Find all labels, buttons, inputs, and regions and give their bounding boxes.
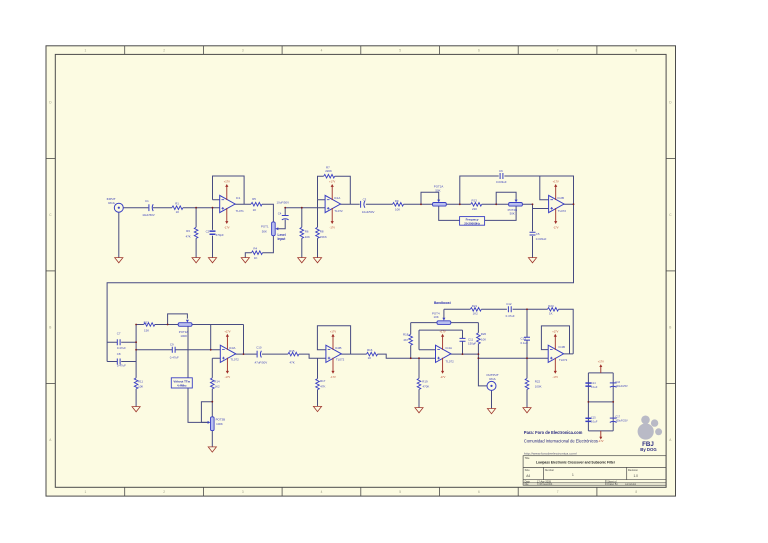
svg-text:POT3B: POT3B — [216, 418, 226, 422]
svg-text:IC3B: IC3B — [335, 346, 341, 350]
svg-text:5: 5 — [399, 49, 401, 53]
svg-text:R3: R3 — [186, 229, 190, 233]
svg-text:TL072: TL072 — [334, 209, 343, 213]
svg-text:Lowpass Electronic Crossover a: Lowpass Electronic Crossover and Subsoni… — [536, 461, 616, 465]
svg-text:0.1uF: 0.1uF — [591, 386, 598, 389]
svg-text:-17V: -17V — [225, 375, 231, 379]
svg-text:C15: C15 — [591, 417, 596, 420]
svg-text:R8: R8 — [320, 230, 324, 234]
svg-text:50K: 50K — [262, 230, 267, 234]
svg-text:-17V: -17V — [598, 439, 604, 443]
svg-text:10uF/50V: 10uF/50V — [362, 210, 375, 214]
svg-text:2: 2 — [163, 490, 165, 494]
svg-text:1K: 1K — [549, 312, 553, 316]
svg-text:TL072: TL072 — [446, 360, 455, 364]
svg-text:.47uF/50V: .47uF/50V — [254, 360, 267, 364]
svg-text:47K: 47K — [290, 361, 295, 365]
svg-text:TL072: TL072 — [559, 358, 568, 362]
svg-text:R12: R12 — [144, 320, 150, 324]
svg-text:1K2: 1K2 — [473, 312, 479, 316]
svg-text:R21: R21 — [472, 304, 478, 308]
svg-text:R18: R18 — [403, 333, 409, 337]
svg-text:C8: C8 — [117, 352, 121, 356]
svg-text:10K: 10K — [434, 315, 439, 319]
svg-text:150pF: 150pF — [468, 342, 476, 346]
svg-text:3: 3 — [242, 49, 244, 53]
svg-text:Number: Number — [545, 468, 554, 472]
svg-text:C17: C17 — [615, 416, 620, 419]
svg-text:-17V: -17V — [553, 225, 559, 229]
svg-text:R14: R14 — [214, 379, 220, 383]
svg-text:47K: 47K — [186, 235, 191, 239]
svg-text:R20: R20 — [481, 332, 487, 336]
svg-text:R15: R15 — [289, 349, 295, 353]
svg-text:R13: R13 — [472, 199, 478, 203]
svg-text:1: 1 — [572, 473, 574, 477]
svg-text:+17V: +17V — [224, 329, 230, 333]
svg-text:IC3A: IC3A — [229, 346, 235, 350]
svg-text:0.033uF: 0.033uF — [536, 237, 547, 241]
svg-text:+17V: +17V — [329, 180, 335, 184]
svg-text:+17V: +17V — [330, 329, 336, 333]
svg-text:15K6: 15K6 — [320, 235, 327, 239]
svg-text:POT1: POT1 — [261, 224, 269, 228]
svg-text:A4: A4 — [526, 474, 530, 478]
svg-text:100uF/25V: 100uF/25V — [615, 420, 628, 423]
svg-text:0.1uF: 0.1uF — [591, 421, 598, 424]
svg-text:4.4Mhz: 4.4Mhz — [177, 384, 187, 388]
svg-text:0.1uF: 0.1uF — [521, 341, 529, 345]
svg-text:20-20000Hz: 20-20000Hz — [464, 221, 480, 225]
svg-text:1K: 1K — [253, 208, 257, 212]
svg-text:-17V: -17V — [224, 225, 230, 229]
svg-text:C16: C16 — [615, 381, 620, 384]
svg-text:2: 2 — [163, 49, 165, 53]
svg-text:10K: 10K — [138, 385, 143, 389]
svg-text:-17V: -17V — [330, 375, 336, 379]
svg-text:C12: C12 — [506, 302, 512, 306]
svg-text:-17V: -17V — [553, 375, 559, 379]
svg-text:+17V: +17V — [598, 360, 604, 364]
svg-text:10uF/50V: 10uF/50V — [142, 213, 155, 217]
svg-text:R4: R4 — [253, 246, 257, 250]
svg-text:R23: R23 — [548, 304, 554, 308]
svg-text:100K: 100K — [216, 422, 223, 426]
svg-text:File: File — [525, 483, 530, 486]
svg-text:220K: 220K — [325, 169, 332, 173]
svg-text:TL072: TL072 — [558, 209, 567, 213]
svg-text:Drawn By:: Drawn By: — [607, 483, 618, 486]
svg-text:Para: Foro de Electronica.com: Para: Foro de Electronica.com — [524, 430, 583, 435]
svg-text:Bandboost: Bandboost — [434, 301, 452, 305]
svg-text:1: 1 — [85, 49, 87, 53]
svg-text:4K7: 4K7 — [403, 338, 409, 342]
svg-text:RCA: RCA — [489, 377, 495, 381]
svg-text:C10: C10 — [256, 346, 262, 350]
svg-text:C14: C14 — [591, 382, 596, 385]
svg-text:4: 4 — [321, 490, 323, 494]
svg-text:C2: C2 — [206, 230, 210, 234]
svg-text:22K: 22K — [472, 207, 477, 211]
svg-text:0.47uF: 0.47uF — [170, 356, 179, 360]
svg-text:0.47uF: 0.47uF — [506, 314, 515, 318]
svg-text:C6: C6 — [499, 169, 503, 173]
svg-text:C1: C1 — [145, 199, 149, 203]
svg-text:IC2B: IC2B — [558, 196, 564, 200]
svg-text:+17V: +17V — [224, 180, 230, 184]
svg-text:100uF/25V: 100uF/25V — [615, 385, 628, 388]
svg-text:1K: 1K — [368, 356, 372, 360]
svg-text:10K: 10K — [305, 235, 310, 239]
svg-text:100K: 100K — [535, 385, 542, 389]
svg-text:1K: 1K — [176, 210, 180, 214]
svg-text:+17V: +17V — [440, 329, 446, 333]
svg-text:-17V: -17V — [440, 375, 446, 379]
svg-text:15K: 15K — [144, 328, 149, 332]
svg-text:Input: Input — [278, 237, 287, 241]
svg-text:10uF/50V: 10uF/50V — [277, 200, 290, 204]
svg-text:1K: 1K — [254, 256, 258, 260]
svg-text:3: 3 — [242, 490, 244, 494]
svg-text:C:\Proteus\Filt..: C:\Proteus\Filt.. — [537, 483, 554, 486]
svg-text:Comunidad Internacional de El: Comunidad Internacional de Electrónicos — [524, 439, 598, 444]
svg-text:IC1: IC1 — [236, 196, 241, 200]
svg-text:+17V: +17V — [553, 180, 559, 184]
svg-text:100K: 100K — [180, 334, 187, 338]
svg-text:R16: R16 — [367, 348, 373, 352]
svg-text:R5: R5 — [252, 197, 256, 201]
svg-text:R6: R6 — [305, 230, 309, 234]
svg-text:47K: 47K — [320, 384, 325, 388]
svg-text:6: 6 — [478, 49, 480, 53]
svg-text:4: 4 — [321, 49, 323, 53]
svg-text:C7: C7 — [117, 332, 121, 336]
svg-text:5: 5 — [399, 490, 401, 494]
svg-text:R11: R11 — [138, 380, 143, 384]
svg-text:10K: 10K — [395, 207, 400, 211]
svg-text:B: B — [669, 325, 671, 329]
svg-text:-17V: -17V — [329, 225, 335, 229]
svg-text:R1: R1 — [175, 201, 179, 205]
svg-text:470pF: 470pF — [216, 233, 224, 237]
svg-text:8: 8 — [635, 49, 637, 53]
svg-text:RCA: RCA — [108, 201, 114, 205]
svg-text:C9: C9 — [170, 343, 174, 347]
svg-text:1.0: 1.0 — [634, 474, 639, 478]
svg-text:50K: 50K — [510, 212, 515, 216]
svg-text:R19: R19 — [422, 380, 428, 384]
svg-text:TL071: TL071 — [236, 209, 245, 213]
svg-text:R9: R9 — [395, 199, 399, 203]
svg-text:6: 6 — [478, 490, 480, 494]
svg-text:IC4A: IC4A — [446, 346, 452, 350]
svg-text:Revision: Revision — [628, 468, 639, 472]
svg-text:C5: C5 — [536, 232, 540, 236]
svg-text:0.033uF: 0.033uF — [496, 180, 507, 184]
svg-text:50K: 50K — [435, 189, 440, 193]
svg-text:470K: 470K — [423, 385, 430, 389]
svg-text:1K2: 1K2 — [215, 385, 221, 389]
svg-text:IC4B: IC4B — [559, 345, 565, 349]
svg-text:0.47uF: 0.47uF — [117, 364, 126, 368]
svg-text:By DOG: By DOG — [640, 447, 657, 452]
svg-text:0.47uF: 0.47uF — [117, 346, 126, 350]
svg-text:TL072: TL072 — [231, 358, 240, 362]
svg-text:Size: Size — [525, 468, 531, 472]
svg-text:Longovino: Longovino — [625, 483, 637, 486]
svg-text:C3: C3 — [363, 198, 367, 202]
svg-text:8: 8 — [635, 490, 637, 494]
svg-text:TL072: TL072 — [336, 358, 345, 362]
svg-text:IC1A: IC1A — [334, 196, 340, 200]
svg-text:7: 7 — [557, 490, 559, 494]
svg-text:10K: 10K — [481, 338, 486, 342]
svg-text:1: 1 — [85, 490, 87, 494]
svg-text:C13: C13 — [521, 337, 527, 341]
svg-text:7: 7 — [557, 49, 559, 53]
svg-text:R22: R22 — [535, 380, 541, 384]
svg-text:C4: C4 — [278, 212, 282, 216]
svg-text:R17: R17 — [320, 379, 326, 383]
svg-text:Title: Title — [525, 456, 530, 460]
svg-text:http://www.forodeelectronica.c: http://www.forodeelectronica.com/ — [524, 452, 577, 456]
svg-text:+17V: +17V — [552, 329, 558, 333]
svg-text:B: B — [49, 325, 51, 329]
